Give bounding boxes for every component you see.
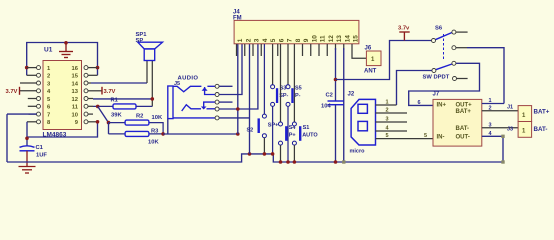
svg-text:P+: P+ [289,133,296,139]
wire: pin14 to speaker [91,82,147,84]
ground (below C1) [19,151,36,173]
wire: bottom ground rail [7,154,503,162]
wire: jack sleeve drop [167,119,169,134]
svg-text:1: 1 [386,100,389,106]
switch S1 AUTO [293,44,295,122]
svg-text:J2: J2 [348,92,355,98]
svg-text:7: 7 [287,38,294,42]
resistor R3 10K [109,133,164,135]
junction node [25,137,29,141]
wire: pin7 to left rail [7,114,37,162]
switch S6 pole 2 [436,64,452,70]
svg-text:7: 7 [47,112,50,118]
svg-text:R3: R3 [151,129,159,135]
svg-text:AUDIO: AUDIO [178,76,199,82]
connector J4 body [234,20,359,43]
svg-text:14: 14 [72,81,79,87]
svg-text:4: 4 [262,38,269,42]
svg-text:S2: S2 [247,128,254,134]
wire: speaker right lead down to R1 [151,61,153,107]
svg-text:R1: R1 [111,98,119,104]
wire: pin12 to speaker right node [93,98,152,100]
node: pin1 junction [25,66,29,70]
svg-text:13: 13 [336,35,343,43]
node on R1 left lead [96,105,100,109]
svg-text:8: 8 [295,38,302,42]
junction node [279,160,283,164]
svg-text:15: 15 [353,35,360,43]
svg-text:15: 15 [72,74,79,80]
pad node [342,160,345,163]
node speaker/R1 [151,97,155,101]
svg-text:10K: 10K [152,115,163,121]
svg-text:R2: R2 [136,114,143,120]
node: pin16 junction [96,66,100,70]
svg-text:OUT+: OUT+ [456,102,473,108]
svg-text:9: 9 [303,38,310,42]
svg-text:11: 11 [320,35,327,42]
junction node [64,41,68,45]
svg-text:10K: 10K [148,140,159,146]
svg-text:OUT-: OUT- [456,134,470,140]
svg-text:6: 6 [278,38,285,42]
switch S2 SP+ [263,44,265,114]
svg-text:IN+: IN+ [437,102,447,108]
connector J3 [518,122,532,138]
junction node [96,120,100,124]
svg-text:AUTO: AUTO [302,133,318,139]
J2 pin wires [376,105,434,139]
svg-text:BAT-: BAT- [456,126,470,132]
S6 mechanical link [443,34,445,61]
svg-text:11: 11 [72,105,79,111]
switch S6 pole 1 [435,33,452,40]
junction node [334,160,338,164]
svg-text:SP+: SP+ [268,123,279,129]
svg-text:U1: U1 [44,47,53,54]
svg-text:3.7V: 3.7V [6,89,18,95]
svg-text:C1: C1 [36,145,44,151]
svg-text:3: 3 [254,38,261,42]
capacitor C1 1UF [20,146,35,151]
power 3.7V (right, pin13) [101,87,103,95]
svg-text:J7: J7 [433,92,440,98]
capacitor C2 [328,101,344,105]
switch S5 P- [286,85,290,89]
svg-text:10: 10 [72,112,78,118]
junction node [161,132,165,136]
U1 right pin circles [84,66,88,124]
svg-text:BAT-: BAT- [534,126,548,133]
U1 right pin stubs [88,68,102,122]
wire: J2 pin1 to S6 pole2 common [397,71,432,106]
wire: J7 OUT+ [482,103,504,105]
speaker SP1 [138,42,163,60]
junction node [334,78,338,82]
svg-text:P-: P- [295,93,301,99]
svg-text:BAT+: BAT+ [456,109,472,115]
connector J7 body [433,99,482,146]
wire: pin8 down to C1 [26,122,28,146]
op-amp U1 body [43,61,82,130]
connector J6 [366,51,381,66]
connector J1 [518,106,532,122]
svg-text:S5: S5 [295,86,302,92]
pad node [501,135,504,138]
svg-text:1: 1 [237,38,244,42]
wire: J4 pin14 to ground rail [343,48,345,162]
wire: diagonal to R2 node [98,106,109,122]
junction node [263,152,267,156]
wire: ground loop over U1 [27,43,98,76]
svg-text:SW DPDT: SW DPDT [423,75,450,81]
svg-text:J3: J3 [507,127,513,133]
wire: sleeve circle run to ground riser [219,117,249,119]
svg-text:39K: 39K [111,113,122,119]
svg-text:S6: S6 [435,26,443,32]
wire: mixed node run [163,133,238,135]
svg-text:5: 5 [386,133,389,139]
svg-text:micro: micro [350,149,366,155]
svg-text:3.7v: 3.7v [398,26,410,32]
junction node [236,132,240,136]
svg-text:12: 12 [328,35,335,43]
wire: R2 node down to R3 [108,123,110,134]
svg-text:3: 3 [386,117,389,123]
svg-text:12: 12 [72,97,78,103]
wire: J4 pin13 down to C2 [335,48,337,101]
svg-text:C2: C2 [326,93,333,99]
wire: J7 BAT+ to J1 [482,110,518,112]
wire: 3.7v feed to S6 [336,41,432,80]
svg-text:ANT: ANT [364,69,377,75]
connector J5 body [168,86,215,119]
svg-text:1UF: 1UF [36,153,47,159]
svg-text:5: 5 [424,133,427,139]
svg-text:2: 2 [386,108,389,114]
wire: S6 to J7 OUT+ riser [456,47,467,49]
power 3.7v (S6) [399,32,409,41]
U1 left pin stubs [20,68,37,122]
wire: J7 BAT- to J3 [482,127,518,129]
svg-text:IN-: IN- [437,134,445,140]
svg-text:J1: J1 [507,105,513,111]
junction node [236,107,240,111]
svg-text:5: 5 [270,38,277,42]
svg-text:2: 2 [245,38,252,42]
switch S4 P+ [280,44,282,122]
pad node [501,160,504,163]
svg-text:BAT+: BAT+ [534,109,550,116]
svg-text:2: 2 [47,74,50,80]
wire: audio stubs and risers to J4 [219,44,258,154]
svg-text:6: 6 [418,100,421,106]
resistor R1 39K [93,105,152,107]
J5 pin circles [215,84,219,120]
junction node [271,152,275,156]
wire: S6 pole2 throw to J7 IN+ [409,63,480,105]
resistor R2 10K [109,123,164,134]
connector J2 body [351,99,375,145]
svg-text:14: 14 [344,35,351,43]
svg-text:SP: SP [136,38,144,44]
J4 pin wires [237,44,367,85]
switch S3 SP- [271,85,275,89]
junction node [293,160,297,164]
junction node [248,152,252,156]
power 3.7V (left, pin4) [19,87,21,95]
svg-text:16: 16 [72,66,79,72]
ground (top of U1) [59,43,73,58]
svg-text:13: 13 [72,89,79,95]
U1 left pin circles [37,66,41,124]
svg-text:3.7V: 3.7V [104,89,116,95]
junction node [286,160,290,164]
wire: J7 OUT- down to rail [482,136,503,162]
wire: pin9 loop to C1 node [27,122,98,137]
svg-text:S1: S1 [303,125,310,131]
junction node [107,121,111,125]
svg-text:104: 104 [321,104,331,110]
svg-text:10: 10 [311,35,318,43]
